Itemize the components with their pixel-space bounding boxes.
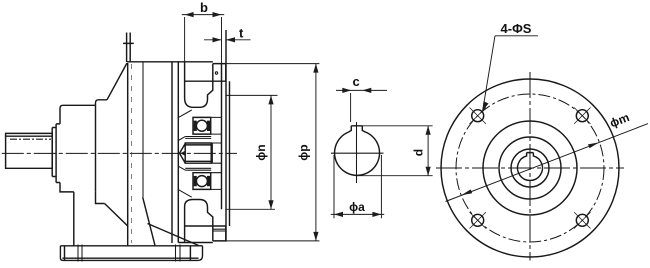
lower bearing: [193, 173, 211, 190]
bolt hole top-right: [574, 108, 590, 124]
d extension lines: [357, 126, 433, 176]
bore circle with keyway: [518, 153, 543, 181]
bolt circle (dash-dot): [456, 94, 604, 242]
svg-text:4-ΦS: 4-ΦS: [501, 21, 532, 36]
dimension d: [427, 126, 429, 176]
svg-text:ϕp: ϕp: [297, 144, 311, 160]
block B: [96, 100, 108, 204]
output plate verticals: [226, 30, 230, 241]
dimension c: [336, 89, 387, 91]
bottom boss double lines: [213, 229, 225, 231]
section horizontal centerline: [331, 152, 384, 154]
shaft section circle: [335, 126, 380, 176]
housing section line 1: [142, 63, 144, 198]
shaft keyway hidden line: [10, 138, 51, 140]
phi-n extension lines: [226, 95, 278, 209]
base bolt ticks left: [78, 245, 82, 262]
keyway circle: [511, 149, 549, 187]
housing right face: [171, 63, 173, 244]
dimension phi-a: [331, 213, 384, 215]
bearing housing block A: [60, 105, 96, 192]
dimension t: [204, 26, 251, 43]
section vertical centerline: [356, 122, 358, 183]
outer circle: [441, 79, 619, 257]
input shaft: [6, 133, 53, 168]
main axis centerline: [2, 152, 237, 154]
dimension phi-p: [226, 64, 320, 241]
shaft collar: [52, 128, 56, 177]
flange disc top slot with counterbore: [185, 62, 213, 108]
svg-text:b: b: [200, 0, 208, 15]
phi-a extension lines: [334, 155, 381, 218]
b extension lines: [184, 17, 186, 62]
bottom counterbore line: [185, 225, 226, 227]
base bolt ticks right: [176, 245, 181, 262]
bearing connect diagonals: [178, 110, 191, 197]
svg-text:d: d: [411, 149, 425, 156]
phi-m dimension diagonal line: [446, 124, 649, 202]
foot gusset diagonal: [148, 224, 199, 246]
bottom boss: [213, 226, 226, 241]
dimension b line: [182, 0, 224, 62]
vertical centerline: [529, 72, 531, 261]
bearing-to-plate connector lines: [211, 117, 222, 189]
housing hidden line: [131, 64, 133, 243]
c extension line: [350, 93, 352, 122]
disc bottom edge: [178, 242, 213, 244]
base plate: [60, 246, 202, 261]
top boss dot: [215, 72, 217, 74]
svg-text:t: t: [239, 26, 244, 41]
foot left edge: [73, 192, 75, 246]
bolt hole bottom-left: [470, 212, 486, 228]
cone section: [105, 63, 128, 226]
hub circle: [499, 137, 561, 199]
vent rod: [123, 33, 134, 63]
top counterbore line: [185, 80, 226, 82]
bolt hole bottom-right: [574, 212, 590, 228]
flange disc bottom slot with counterbore: [185, 200, 213, 243]
dimension phi-n: [226, 95, 278, 209]
bolt hole top-left: [470, 108, 486, 124]
housing top: [127, 61, 213, 63]
front plate: [56, 124, 60, 183]
flange disc left face: [177, 62, 179, 243]
svg-text:ϕn: ϕn: [254, 144, 268, 160]
horizontal centerline: [436, 167, 624, 169]
phi-p extension lines: [226, 64, 320, 241]
upper bearing: [193, 117, 211, 134]
foot right flare: [143, 197, 155, 245]
svg-text:ϕa: ϕa: [349, 200, 365, 214]
housing left face: [127, 63, 129, 246]
top boss: [213, 64, 226, 82]
spigot circle: [483, 121, 577, 215]
svg-text:c: c: [353, 74, 360, 89]
gear teeth between bearings: [178, 137, 213, 171]
